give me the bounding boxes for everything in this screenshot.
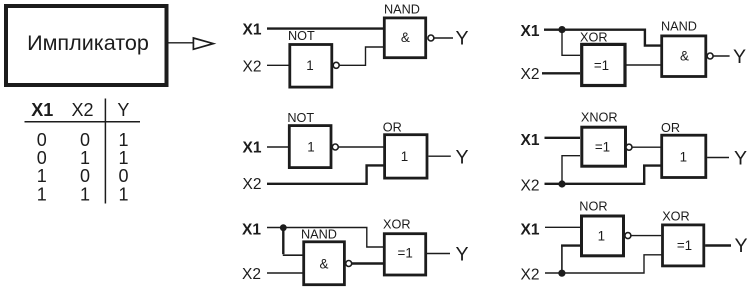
svg-text:NAND: NAND	[661, 19, 697, 33]
svg-text:=1: =1	[398, 245, 413, 260]
svg-text:Y: Y	[455, 146, 468, 168]
svg-text:&: &	[401, 30, 410, 45]
svg-text:XOR: XOR	[383, 218, 411, 232]
C3 junction on X1	[280, 224, 287, 231]
svg-text:0: 0	[80, 130, 90, 150]
svg-text:X1: X1	[243, 21, 262, 38]
svg-text:0: 0	[37, 148, 47, 168]
wire U0 output	[168, 42, 193, 44]
svg-text:1: 1	[118, 185, 128, 205]
svg-text:Импликатор: Импликатор	[27, 30, 149, 55]
svg-text:X1: X1	[521, 23, 540, 40]
svg-text:=1: =1	[594, 58, 609, 73]
truth table row 4	[37, 185, 129, 205]
C4 junction on X1	[558, 26, 565, 33]
C1 wire NAND output to Y	[434, 37, 453, 39]
svg-text:X1: X1	[521, 222, 540, 239]
C5 gate XNOR output bubble	[626, 144, 632, 150]
C2 gate NOT body	[289, 126, 331, 168]
svg-text:1: 1	[401, 149, 408, 164]
svg-text:NOT: NOT	[288, 29, 315, 43]
C3 gate NAND output bubble	[346, 261, 352, 267]
truth table row 3	[37, 166, 129, 186]
C4 wire X2 to XOR input 2	[542, 72, 580, 74]
svg-text:1: 1	[37, 166, 47, 186]
truth table row 1	[37, 130, 129, 150]
C6 wire NOR output to XOR input 1	[631, 235, 661, 237]
svg-text:XOR: XOR	[662, 210, 690, 224]
C1 wire X2 to NOT input	[267, 64, 289, 66]
svg-text:0: 0	[80, 166, 90, 186]
truth table column divider	[104, 99, 106, 204]
svg-text:0: 0	[118, 166, 128, 186]
svg-text:XNOR: XNOR	[581, 111, 618, 125]
svg-text:1: 1	[307, 140, 314, 155]
C4 gate NAND body	[662, 36, 706, 77]
svg-text:X1: X1	[242, 222, 261, 239]
C1 gate NAND body	[384, 18, 425, 58]
C5 gate OR body	[662, 135, 706, 177]
svg-text:NAND: NAND	[301, 228, 337, 242]
svg-text:X2: X2	[243, 58, 262, 75]
C5 gate XNOR body	[582, 127, 626, 166]
svg-text:=1: =1	[677, 238, 692, 253]
C6 gate NOR output bubble	[625, 233, 631, 239]
C6 wire XOR output to Y	[705, 244, 731, 246]
C2 wire OR output to Y	[429, 155, 451, 157]
C2 gate NOT output bubble	[332, 144, 338, 150]
svg-text:X2: X2	[521, 267, 540, 284]
svg-text:NOT: NOT	[287, 111, 314, 125]
C4 wire XOR output to NAND input 2	[625, 64, 661, 66]
C3 wire X1 branch vertical	[282, 227, 284, 255]
C4 gate XOR body	[582, 44, 625, 85]
svg-text:1: 1	[80, 185, 90, 205]
C4 gate NAND output bubble	[707, 53, 713, 59]
C1 wire X1 to NAND input 1	[267, 27, 384, 29]
svg-text:0: 0	[37, 130, 47, 150]
truth table row 2	[37, 148, 129, 168]
C3 wire XOR output to Y	[427, 253, 450, 255]
C5 wire XNOR output to OR input 1	[632, 146, 661, 148]
svg-text:OR: OR	[383, 120, 402, 134]
svg-text:Y: Y	[733, 46, 746, 68]
C2 wire NOT output to OR input 1	[338, 146, 384, 148]
C3 gate NAND body	[304, 242, 345, 285]
truth table header underline	[25, 121, 141, 123]
C6 gate NOR body	[582, 216, 624, 256]
output arrow symbol	[193, 38, 213, 49]
C3 wire NAND output to XOR input 2	[352, 262, 384, 264]
C6 gate XOR body	[663, 225, 704, 266]
C3 wire X2 to NAND input 2	[267, 272, 303, 274]
C5 wire OR output to Y	[707, 157, 729, 159]
svg-text:Y: Y	[734, 148, 747, 170]
svg-text:&: &	[320, 256, 329, 271]
C6 wire X2 branch to NOR input 2	[561, 244, 580, 246]
svg-text:1: 1	[680, 150, 687, 165]
svg-text:Y: Y	[117, 100, 129, 120]
svg-text:Y: Y	[455, 27, 468, 49]
C1 gate NOT output bubble	[333, 62, 339, 68]
svg-text:X2: X2	[521, 178, 540, 195]
C2 wire X1 to NOT input	[267, 146, 289, 148]
C4 wire NAND output to Y	[713, 55, 729, 57]
C3 wire X1 to XOR input 1	[267, 228, 384, 248]
C4 wire X1 branch to XOR input 1	[562, 30, 580, 55]
svg-text:Y: Y	[455, 244, 468, 266]
svg-text:X1: X1	[521, 132, 540, 149]
svg-text:1: 1	[306, 58, 313, 73]
C3 gate XOR body	[384, 234, 425, 275]
C5 junction on X2	[558, 180, 565, 187]
C6 wire X1 to NOR input 1	[545, 226, 580, 228]
svg-text:X2: X2	[243, 176, 262, 193]
C5 wire X2 to OR input 2	[545, 166, 662, 184]
svg-text:=1: =1	[595, 140, 610, 155]
C4 wire X1 to NAND input 1	[544, 30, 661, 46]
C2 wire X2 to OR input 2	[267, 165, 384, 183]
svg-text:X2: X2	[71, 100, 93, 120]
block U0 "Импликатор"	[6, 6, 167, 85]
svg-text:XOR: XOR	[580, 31, 608, 45]
svg-text:X2: X2	[242, 266, 261, 283]
C6 junction on X2	[558, 270, 565, 277]
C2 gate OR body	[385, 135, 427, 178]
svg-text:1: 1	[37, 185, 47, 205]
svg-text:X1: X1	[31, 100, 53, 120]
C5 wire X1 to XNOR input 1	[545, 137, 581, 139]
svg-text:NAND: NAND	[384, 3, 420, 17]
C5 wire X2 branch to XNOR input 2	[562, 156, 580, 183]
C1 gate NOT body	[290, 45, 332, 88]
svg-text:1: 1	[118, 148, 128, 168]
svg-text:Y: Y	[734, 235, 747, 257]
svg-text:1: 1	[118, 130, 128, 150]
C6 wire X2 branch vertical	[561, 245, 563, 273]
svg-text:X2: X2	[521, 66, 540, 83]
svg-text:1: 1	[80, 148, 90, 168]
svg-text:X1: X1	[243, 139, 262, 156]
C6 wire X2 to XOR input 2	[545, 255, 662, 273]
svg-text:OR: OR	[661, 121, 680, 135]
svg-text:NOR: NOR	[579, 200, 607, 214]
C1 wire NOT output to NAND input 2	[339, 47, 383, 65]
svg-text:1: 1	[598, 228, 605, 243]
C1 gate NAND output bubble	[428, 35, 434, 41]
svg-text:&: &	[680, 49, 689, 64]
C3 wire X1 branch to NAND input 1	[283, 254, 303, 256]
